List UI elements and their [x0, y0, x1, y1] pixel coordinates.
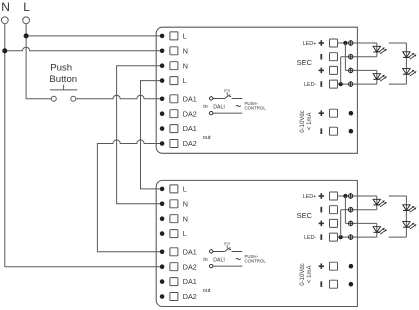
- svg-text:< 1mA: < 1mA: [307, 113, 313, 131]
- U2 wire LED- to connector row4: [337, 236, 377, 238]
- U1 terminal DA2 row8 clamp: [170, 140, 178, 148]
- U1 LED D2: [373, 74, 380, 80]
- U1 terminal DA2 row6 node: [160, 111, 165, 116]
- U2 terminal N row3 node: [160, 216, 165, 221]
- U1 wire LED- junction up to row2: [340, 57, 342, 84]
- svg-text:out: out: [203, 288, 211, 294]
- U1 terminal N row2 clamp: [170, 47, 178, 55]
- U2 terminal DA1 row7 clamp: [170, 278, 178, 286]
- svg-text:L: L: [183, 229, 187, 238]
- junction on N feeder: [2, 48, 7, 53]
- svg-text:(m): (m): [224, 89, 230, 93]
- U2 LED D1 string wire: [376, 196, 378, 210]
- LED driver U2 outline: [156, 180, 357, 306]
- U2 LED D2 string wire: [376, 223, 378, 237]
- U1 wire LED+ junction down to row3: [344, 43, 346, 70]
- U1 SEC clamp row3: [330, 66, 338, 74]
- svg-text:N: N: [1, 0, 10, 14]
- wire N to U1 terminal N (hops over L feeder): [5, 47, 162, 51]
- U1 LED- junction: [339, 82, 343, 86]
- svg-text:LED-: LED-: [304, 82, 316, 88]
- U1 0-10V minus: [320, 128, 322, 134]
- U2 connector row3: [349, 221, 353, 227]
- push button actuator bar: [50, 89, 77, 91]
- U1 terminal L row1 node: [160, 34, 165, 39]
- svg-text:N: N: [183, 214, 188, 223]
- U1 wire row3 tap: [345, 69, 376, 71]
- U1 wire LED+ to connector row1: [337, 42, 377, 44]
- U1 SEC clamp row1: [330, 39, 338, 47]
- svg-text:LED+: LED+: [303, 41, 317, 47]
- svg-text:DA2: DA2: [183, 262, 197, 271]
- supply terminal N: [1, 17, 8, 24]
- svg-text:L: L: [183, 76, 187, 85]
- U1 SEC clamp row2: [330, 53, 338, 61]
- U2 terminal N row2 node: [160, 202, 165, 207]
- U2 LED D4: [403, 222, 410, 228]
- U2 terminal L row1 node: [160, 187, 165, 192]
- U1 terminal N row2 node: [160, 49, 165, 54]
- U1 terminal DA1 row7 node: [160, 126, 165, 131]
- U2 wire LED+ to connector row1: [337, 195, 377, 197]
- U1 connector row1: [349, 40, 353, 46]
- U1 DA2 input pin: [210, 111, 213, 114]
- supply terminal L: [23, 17, 30, 24]
- svg-text:Push: Push: [50, 63, 72, 74]
- U2 0-10V plus: [319, 263, 324, 269]
- U1 LED+ junction: [343, 41, 347, 45]
- U1 SEC clamp row4: [330, 80, 338, 88]
- U1 0-10V clamp plus: [330, 109, 338, 117]
- U1 terminal DA1 row5 clamp: [170, 95, 178, 103]
- U2 terminal L row4 clamp: [170, 230, 178, 238]
- U2 DALI/push selector switch: [213, 250, 225, 252]
- svg-text:(m): (m): [224, 242, 230, 246]
- wire U1 N(3) to U2 N(2): [117, 66, 163, 204]
- svg-text:DA1: DA1: [183, 124, 197, 133]
- svg-text:DALI: DALI: [213, 257, 225, 263]
- svg-text:CONTROL: CONTROL: [245, 259, 267, 264]
- U1 LED D2 string wire: [376, 70, 378, 84]
- U2 DA2 input pin: [210, 264, 213, 267]
- U2 connector row2: [349, 207, 353, 213]
- svg-text:0-10Vdc: 0-10Vdc: [300, 110, 306, 132]
- U2 terminal DA2 row6 node: [160, 264, 165, 269]
- U2 SEC polarity row4 minus: [320, 234, 322, 240]
- U2 SEC clamp row2: [330, 206, 338, 214]
- U1 terminal N row3 clamp: [170, 62, 178, 70]
- U2 DA1 input pin: [210, 250, 213, 253]
- svg-text:SEC: SEC: [297, 58, 313, 67]
- U2 label tilde: [236, 258, 241, 259]
- svg-text:out: out: [203, 135, 211, 141]
- U1 wire row2 tap: [341, 56, 377, 58]
- svg-text:< 1mA: < 1mA: [307, 266, 313, 284]
- U2 terminal DA1 row7 node: [160, 279, 165, 284]
- U1 0-10V plus: [319, 110, 324, 116]
- wire push button to U1 DA1 in (hops over two verticals): [76, 95, 162, 99]
- U1 wire LED- to connector row4: [337, 83, 377, 85]
- U1 terminal L row4 clamp: [170, 77, 178, 85]
- LED driver U1 outline: [156, 27, 357, 153]
- U2 terminal DA2 row8 clamp: [170, 293, 178, 301]
- U2 SEC polarity row2 minus: [320, 207, 322, 213]
- U1 SEC polarity row2 minus: [320, 54, 322, 60]
- U2 LED- junction: [339, 235, 343, 239]
- U2 LED+ junction: [343, 194, 347, 198]
- U2 SEC polarity row3 plus: [319, 221, 324, 227]
- U2 terminal DA1 row5 node: [160, 250, 165, 255]
- U1 SEC polarity row4 minus: [320, 81, 322, 87]
- U1 LED D1: [373, 46, 380, 52]
- U2 LED D1: [373, 199, 380, 205]
- svg-text:N: N: [183, 199, 188, 208]
- wire N feeder to U2 DA2 in: [5, 266, 162, 268]
- wire L feeder to push button: [26, 98, 51, 100]
- U1 terminal N row3 node: [160, 63, 165, 68]
- U2 DA2 input wire: [213, 265, 242, 267]
- U2 0-10V node plus: [349, 264, 354, 269]
- U2 terminal DA2 row6 clamp: [170, 263, 178, 271]
- U1 continuation string wire: [389, 42, 407, 44]
- U2 0-10V clamp minus: [330, 280, 338, 288]
- U1 SEC polarity row1 plus: [319, 40, 324, 46]
- wire L to U1 terminal L: [26, 35, 162, 37]
- U1 terminal DA1 row5 node: [160, 97, 165, 102]
- svg-text:L: L: [183, 32, 187, 41]
- U1 DALI/push selector switch: [213, 97, 225, 99]
- svg-text:SEC: SEC: [297, 211, 313, 220]
- U2 wire LED+ junction down to row3: [344, 196, 346, 223]
- wire U1 L(4) to U2 L(1): [141, 81, 163, 189]
- U2 terminal N row2 clamp: [170, 200, 178, 208]
- svg-text:CONTROL: CONTROL: [245, 106, 267, 111]
- svg-text:0-10Vdc: 0-10Vdc: [300, 263, 306, 285]
- wire L feeder vertical: [25, 24, 27, 99]
- svg-text:N: N: [183, 61, 188, 70]
- push button contact left: [51, 96, 56, 101]
- U1 LED D3: [403, 52, 410, 58]
- svg-text:L: L: [183, 185, 187, 194]
- U1 0-10V node minus: [349, 129, 354, 134]
- U2 terminal DA1 row5 clamp: [170, 248, 178, 256]
- U2 wire LED- junction up to row2: [340, 210, 342, 237]
- junction on L feeder: [24, 33, 29, 38]
- wire U1 DA2 out to U2 DA1 in (hops over two verticals): [97, 140, 162, 252]
- svg-text:DA1: DA1: [183, 247, 197, 256]
- U1 LED D4: [403, 69, 410, 75]
- U2 connector row1: [349, 193, 353, 199]
- U1 0-10V node plus: [349, 111, 354, 116]
- svg-text:Button: Button: [49, 74, 77, 85]
- svg-text:DA2: DA2: [183, 139, 197, 148]
- svg-text:DALI: DALI: [213, 104, 225, 110]
- U2 terminal L row4 node: [160, 231, 165, 236]
- U2 wire row3 tap: [345, 222, 376, 224]
- U1 0-10V clamp minus: [330, 127, 338, 135]
- svg-text:DA1: DA1: [183, 277, 197, 286]
- U1 LED D1 string wire: [376, 43, 378, 57]
- svg-text:in: in: [203, 257, 208, 263]
- U1 connector row3: [349, 68, 353, 74]
- U2 terminal DA2 row8 node: [160, 294, 165, 299]
- U1 terminal DA1 row7 clamp: [170, 125, 178, 133]
- U2 SEC clamp row4: [330, 233, 338, 241]
- U2 SEC clamp row3: [330, 219, 338, 227]
- U1 DA2 input wire: [213, 112, 242, 114]
- U2 terminal L row1 clamp: [170, 185, 178, 193]
- svg-text:N: N: [183, 46, 188, 55]
- U1 terminal L row4 node: [160, 78, 165, 83]
- U2 SEC clamp row1: [330, 192, 338, 200]
- svg-text:DA1: DA1: [183, 94, 197, 103]
- U2 SEC polarity row1 plus: [319, 193, 324, 199]
- U2 LED D2: [373, 227, 380, 233]
- svg-text:LED-: LED-: [304, 235, 316, 241]
- push button contact right: [71, 96, 76, 101]
- U2 wire row2 tap: [341, 209, 377, 211]
- U1 SEC polarity row3 plus: [319, 68, 324, 74]
- U2 0-10V node minus: [349, 282, 354, 287]
- U1 connector row2: [349, 54, 353, 60]
- U2 connector row4: [349, 234, 353, 240]
- U2 continuation string wire: [389, 195, 407, 197]
- svg-text:in: in: [203, 104, 208, 110]
- U2 0-10V minus: [320, 281, 322, 287]
- U1 connector row4: [349, 81, 353, 87]
- wire N feeder vertical: [4, 24, 6, 267]
- U1 terminal DA2 row8 node: [160, 141, 165, 146]
- svg-text:L: L: [23, 0, 30, 14]
- U2 terminal N row3 clamp: [170, 215, 178, 223]
- U1 DA1 input pin: [210, 97, 213, 100]
- U1 label tilde: [236, 105, 241, 106]
- U1 terminal L row1 clamp: [170, 32, 178, 40]
- U2 LED D3: [403, 205, 410, 211]
- svg-text:LED+: LED+: [303, 194, 317, 200]
- U2 0-10V clamp plus: [330, 262, 338, 270]
- U1 terminal DA2 row6 clamp: [170, 110, 178, 118]
- svg-text:DA2: DA2: [183, 109, 197, 118]
- svg-text:DA2: DA2: [183, 292, 197, 301]
